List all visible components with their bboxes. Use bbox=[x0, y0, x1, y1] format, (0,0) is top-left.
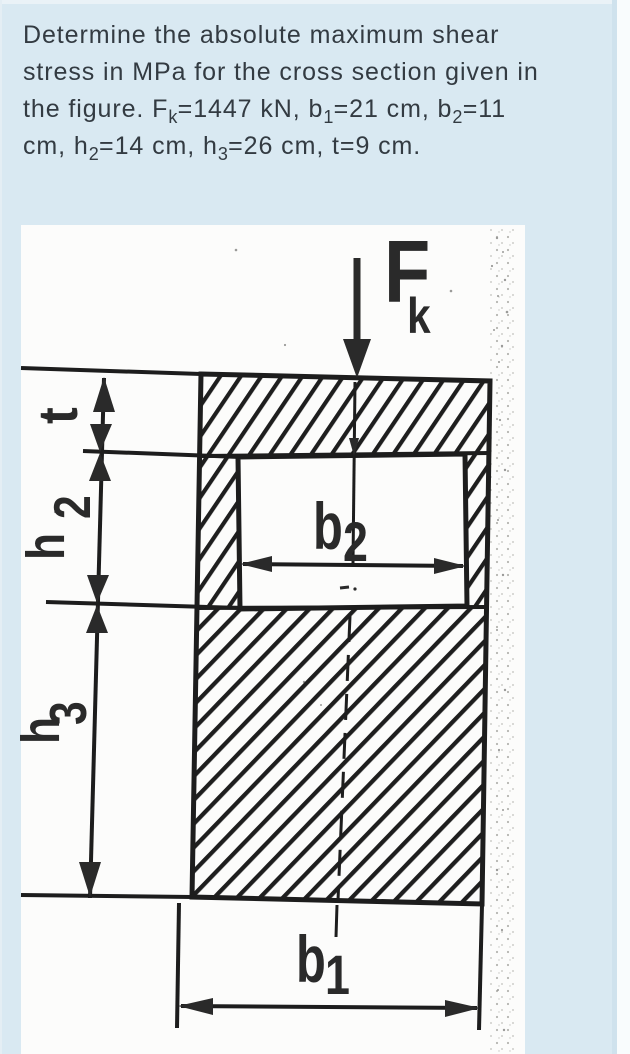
svg-text:2: 2 bbox=[44, 495, 102, 519]
svg-text:k: k bbox=[407, 288, 431, 344]
svg-text:h: h bbox=[16, 533, 76, 560]
svg-text:b: b bbox=[313, 490, 343, 564]
svg-text:t: t bbox=[28, 407, 90, 424]
svg-text:1: 1 bbox=[325, 943, 350, 1006]
svg-text:b: b bbox=[296, 923, 326, 997]
svg-text:3: 3 bbox=[40, 701, 98, 725]
svg-text:2: 2 bbox=[343, 510, 368, 573]
